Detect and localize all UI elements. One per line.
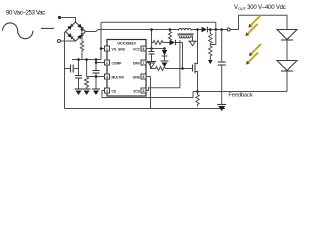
ground symbol C3 [147, 62, 156, 68]
feedback rail [193, 90, 287, 93]
ground symbol R2 [83, 89, 91, 95]
diode D2 [170, 40, 183, 45]
LED D5 arrows [248, 44, 261, 63]
wire LED mid [286, 40, 288, 61]
ground symbol D3 [161, 61, 169, 67]
svg-text:7: 7 [143, 61, 145, 65]
wire boost node [196, 29, 202, 31]
ground symbol R1 [75, 89, 83, 95]
capacitor C6 vertical [75, 60, 82, 90]
svg-text:3: 3 [106, 75, 108, 79]
output terminal circle [227, 28, 230, 31]
ground symbol aux [188, 41, 196, 45]
bridge rectifier [66, 22, 86, 41]
wire pin7 gate path [146, 63, 156, 69]
svg-text:8: 8 [143, 47, 145, 51]
label Feedback [228, 92, 253, 98]
resistor R9 from rectified line to node [80, 28, 83, 59]
wire x182 drop [182, 43, 184, 69]
wire bridge plus output [86, 30, 178, 32]
capacitor C2 vertical [93, 60, 100, 90]
wire pin2 [95, 61, 105, 64]
svg-text:CS: CS [112, 89, 117, 93]
wire pin1 [100, 47, 105, 50]
svg-text:ZCD: ZCD [133, 89, 140, 93]
svg-text:VO_SNS: VO_SNS [112, 47, 126, 51]
resistor R6 divider upper [209, 28, 216, 44]
label Vout [234, 5, 286, 11]
wire pin4 CS route under IC [102, 91, 193, 98]
ground symbol output [217, 105, 226, 112]
svg-text:VOUT 300 V–400 Vdc: VOUT 300 V–400 Vdc [234, 5, 286, 11]
resistor R5 gate [156, 67, 193, 71]
svg-text:6: 6 [143, 75, 145, 79]
wire pin3 [87, 75, 105, 78]
pin 1 VO_SNS [105, 46, 126, 51]
AC source sine wave [3, 23, 33, 39]
junction output cap [220, 28, 223, 31]
wire AC input 1 to bridge top [60, 18, 76, 23]
pin 3 MULTIN [105, 74, 125, 79]
resistor R2 vertical [85, 60, 89, 90]
wire pin6 GND [146, 77, 151, 109]
LED D4 arrows [248, 16, 261, 35]
wire top rail drop to output [215, 22, 218, 31]
svg-text:GND: GND [133, 75, 141, 79]
terminal circle (AC input 2) [58, 40, 61, 43]
svg-text:UCC28810: UCC28810 [117, 41, 135, 45]
MOSFET Q1 [193, 28, 199, 91]
capacitor C1 (X-cap horizontal) [65, 65, 79, 73]
LED D5 [277, 61, 297, 72]
pin 2 COMP [105, 60, 123, 65]
aux winding ZCD [179, 36, 192, 41]
svg-text:2: 2 [106, 61, 108, 65]
svg-text:VCC: VCC [133, 47, 141, 51]
pin 8 VCC [133, 46, 146, 51]
wire riser to top rail [100, 22, 102, 59]
wire dash from source [41, 27, 54, 29]
resistor R8 sense [196, 92, 199, 107]
svg-text:1: 1 [106, 47, 108, 51]
pin 4 CS [105, 88, 117, 93]
ground symbol C2 [92, 89, 100, 95]
wire bridge minus down left side [65, 32, 66, 109]
svg-text:90 Vac–253 Vac: 90 Vac–253 Vac [6, 9, 45, 16]
wire pin5 ZCD route [146, 40, 180, 91]
wire to LED top [230, 15, 287, 29]
svg-text:4: 4 [106, 89, 108, 93]
pin 6 GND [133, 74, 146, 79]
top rail [101, 21, 216, 23]
IC U1 UCC28810 [107, 40, 146, 97]
pin 7 DRV [133, 60, 146, 65]
arrow to feedback [208, 57, 212, 64]
label 90 Vac-253 Vac [6, 9, 45, 16]
diode D1 boost [202, 27, 228, 33]
ground bottom rail [65, 108, 226, 110]
junction gate [181, 67, 184, 70]
wire pin8 VCC node [146, 47, 165, 50]
junction dots on node line [77, 58, 97, 61]
pin 5 ZCD [133, 88, 146, 93]
resistor R4 startup vertical [169, 28, 172, 42]
svg-text:MULTIN: MULTIN [112, 75, 125, 79]
svg-text:Feedback: Feedback [228, 92, 253, 98]
wire VCC riser [150, 28, 153, 48]
wire AC input 2 to bridge bottom [61, 40, 76, 42]
LED D4 [277, 30, 297, 41]
inductor L1 [178, 29, 197, 35]
wire LED bottom [286, 71, 288, 92]
input node line [72, 59, 101, 61]
resistor R7 divider lower [209, 45, 212, 58]
capacitor C4 output [218, 30, 226, 106]
svg-text:DRV: DRV [133, 61, 141, 65]
capacitor C3 VCC [149, 49, 155, 62]
svg-text:5: 5 [143, 89, 145, 93]
node terminal dot (AC input 1) [58, 16, 61, 19]
svg-text:COMP: COMP [112, 61, 123, 65]
zener D3 [162, 47, 167, 61]
resistor R3 horizontal [152, 41, 170, 45]
